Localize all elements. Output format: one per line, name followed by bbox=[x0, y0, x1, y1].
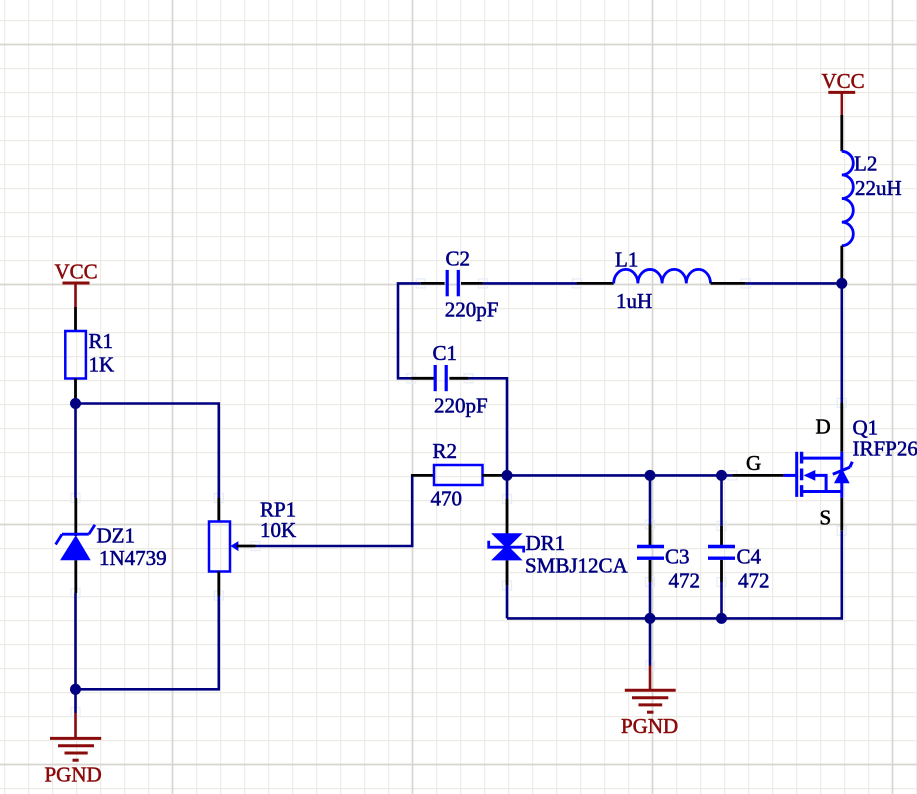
svg-text:1uH: 1uH bbox=[616, 289, 652, 313]
pin L2.1 bbox=[840, 115, 843, 151]
node B (bottom left junction) bbox=[70, 684, 81, 695]
svg-text:SMBJ12CA: SMBJ12CA bbox=[525, 554, 629, 578]
power port PGND (middle) bbox=[621, 666, 678, 739]
svg-text:1N4739: 1N4739 bbox=[99, 546, 167, 570]
wire node F to PGND bbox=[649, 618, 652, 665]
node A (R1/DZ1/RP1 top) bbox=[70, 398, 81, 409]
pin Q1 gate bbox=[732, 474, 783, 477]
node C (gate net left) bbox=[502, 470, 513, 481]
pin DZ1 anode bbox=[74, 560, 77, 593]
svg-text:C2: C2 bbox=[446, 247, 471, 271]
svg-text:VCC: VCC bbox=[822, 69, 865, 93]
power port PGND (left) bbox=[45, 713, 102, 787]
wire node B to PGND bbox=[74, 689, 77, 713]
svg-text:VCC: VCC bbox=[55, 260, 98, 284]
node G (C4 top) bbox=[716, 470, 727, 481]
pin C2.2 bbox=[461, 282, 483, 285]
wire-end hotspot markers bbox=[71, 279, 846, 717]
pin R2.1 bbox=[411, 474, 434, 477]
wire DZ1 to node B bbox=[74, 593, 77, 689]
svg-text:DR1: DR1 bbox=[526, 531, 566, 555]
wire C2 to L1 bbox=[483, 282, 577, 285]
svg-text:PGND: PGND bbox=[45, 763, 102, 787]
svg-text:IRFP260: IRFP260 bbox=[853, 437, 917, 461]
wire C4 top bbox=[720, 475, 723, 526]
pin R2.2 bbox=[483, 474, 504, 477]
svg-text:L2: L2 bbox=[854, 152, 877, 176]
capacitor C3 bbox=[637, 544, 700, 592]
pin C3.1 bbox=[649, 525, 652, 546]
wire Q1 source to bottom rail bbox=[507, 531, 842, 619]
svg-text:472: 472 bbox=[738, 568, 770, 592]
svg-text:DZ1: DZ1 bbox=[97, 523, 136, 547]
svg-text:G: G bbox=[746, 451, 761, 475]
pin C4.1 bbox=[720, 526, 723, 545]
pin C3.2 bbox=[649, 560, 652, 582]
pin L2.2 bbox=[840, 246, 843, 281]
pin RP1.1 bbox=[217, 498, 220, 522]
inductor L1 bbox=[614, 248, 711, 314]
zener diode DZ1 bbox=[56, 523, 167, 570]
svg-text:D: D bbox=[816, 415, 831, 439]
wire gate net bbox=[507, 474, 732, 477]
pin Q1 source bbox=[840, 498, 843, 531]
wire node A down to DZ1 bbox=[74, 404, 77, 499]
node F (C3 bottom / PGND) bbox=[645, 613, 656, 624]
svg-text:220pF: 220pF bbox=[434, 394, 488, 418]
power port VCC (left) bbox=[55, 260, 98, 308]
node D (drain net) bbox=[836, 278, 847, 289]
wire L1 to node D bbox=[746, 282, 842, 285]
pin DR1.2 bbox=[506, 560, 509, 585]
capacitor C2 bbox=[445, 247, 499, 322]
pin R1.1 bbox=[74, 307, 77, 331]
wire node A to RP1 top bbox=[76, 404, 219, 499]
pin L1.2 bbox=[711, 282, 746, 285]
svg-text:470: 470 bbox=[431, 486, 463, 510]
node H (C4 bottom) bbox=[716, 613, 727, 624]
pin C2.1 bbox=[421, 282, 445, 285]
svg-text:S: S bbox=[820, 506, 832, 530]
wire DR1 to bottom rail bbox=[506, 585, 509, 618]
pin RP1 wiper arrow bbox=[230, 541, 255, 551]
potentiometer RP1 bbox=[209, 497, 296, 571]
power port VCC (right) bbox=[822, 69, 865, 115]
wire C1 to gate node bbox=[469, 378, 507, 470]
svg-text:220pF: 220pF bbox=[445, 298, 499, 322]
wire C3 top bbox=[649, 475, 652, 524]
wire wiper to R2 left bbox=[256, 474, 413, 546]
svg-text:R1: R1 bbox=[89, 329, 114, 353]
capacitor C4 bbox=[708, 544, 770, 592]
svg-text:C4: C4 bbox=[737, 544, 762, 568]
capacitor C1 bbox=[433, 341, 488, 417]
resistor R2 bbox=[431, 439, 483, 510]
svg-text:22uH: 22uH bbox=[855, 176, 902, 200]
pin C1.2 bbox=[449, 377, 468, 380]
svg-text:L1: L1 bbox=[615, 248, 638, 272]
svg-text:C3: C3 bbox=[665, 544, 690, 568]
node E (C3 top) bbox=[645, 470, 656, 481]
pin C1.1 bbox=[411, 377, 434, 380]
svg-text:R2: R2 bbox=[433, 439, 458, 463]
pin DZ1 cathode bbox=[74, 498, 77, 536]
wire C4 bottom bbox=[720, 582, 723, 618]
svg-text:C1: C1 bbox=[433, 341, 458, 365]
resistor R1 bbox=[65, 329, 114, 378]
svg-text:472: 472 bbox=[669, 568, 701, 592]
wire C2/C1 left loop bbox=[398, 283, 421, 378]
pin C4.2 bbox=[720, 560, 723, 582]
pin DR1.1 bbox=[506, 499, 509, 534]
pin Q1 drain bbox=[840, 403, 843, 452]
svg-text:1K: 1K bbox=[89, 353, 115, 377]
transistor Q1 bbox=[746, 415, 917, 530]
TVS diode DR1 bbox=[489, 531, 629, 578]
wire C3 bottom bbox=[649, 582, 652, 618]
inductor L2 bbox=[842, 151, 902, 245]
pin R1.2 bbox=[74, 379, 77, 403]
pin L1.1 bbox=[577, 282, 614, 285]
wire node B to RP1 bottom bbox=[76, 596, 219, 690]
wire gate node to DR1 bbox=[506, 475, 509, 499]
wire node D to Q1 drain bbox=[840, 283, 843, 403]
pin RP1.2 bbox=[217, 572, 220, 596]
svg-text:PGND: PGND bbox=[621, 714, 678, 738]
svg-text:10K: 10K bbox=[260, 518, 296, 542]
